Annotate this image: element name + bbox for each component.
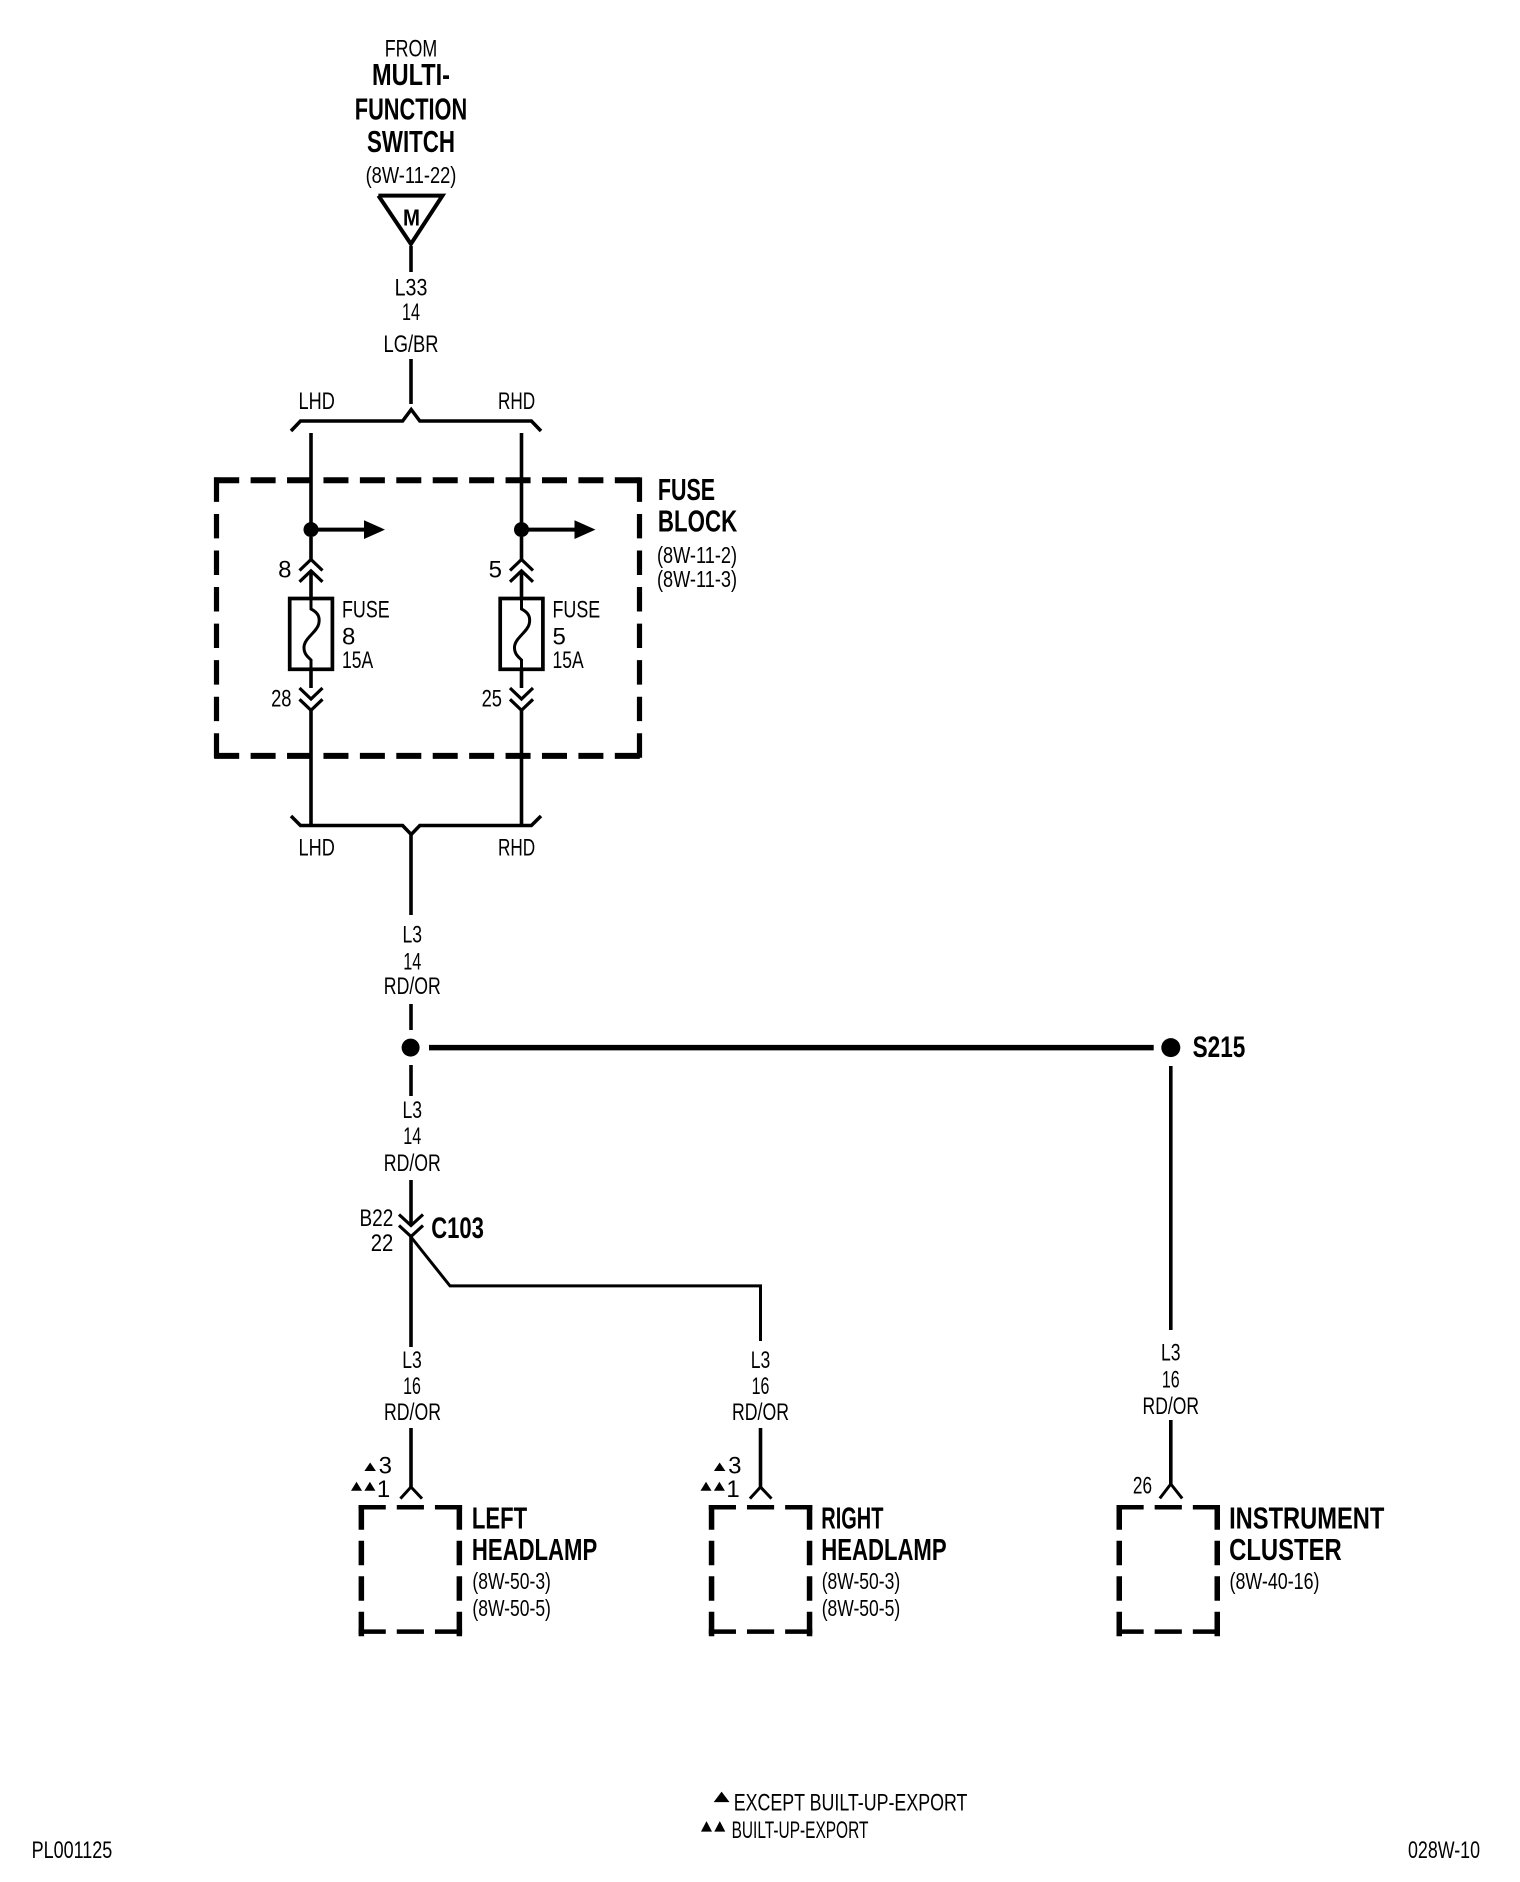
svg-text:14: 14 [403,1123,421,1150]
svg-text:L3: L3 [403,922,423,949]
svg-text:INSTRUMENT: INSTRUMENT [1229,1501,1384,1536]
svg-text:L3: L3 [403,1097,423,1124]
svg-text:(8W-50-5): (8W-50-5) [472,1595,551,1621]
svg-text:RD/OR: RD/OR [1143,1393,1200,1420]
svg-text:BLOCK: BLOCK [658,504,738,539]
svg-text:RHD: RHD [498,388,535,415]
svg-text:RD/OR: RD/OR [384,1150,441,1177]
svg-text:CLUSTER: CLUSTER [1229,1532,1342,1567]
svg-text:5: 5 [489,557,502,584]
svg-text:L33: L33 [395,274,428,301]
svg-text:L3: L3 [402,1347,422,1374]
svg-text:C103: C103 [431,1212,484,1245]
svg-text:25: 25 [482,686,502,713]
svg-text:15A: 15A [342,647,373,674]
svg-text:16: 16 [752,1373,770,1400]
svg-text:EXCEPT BUILT-UP-EXPORT: EXCEPT BUILT-UP-EXPORT [734,1790,968,1817]
svg-text:15A: 15A [553,647,584,674]
svg-text:RD/OR: RD/OR [384,1399,441,1426]
svg-text:L3: L3 [751,1347,771,1374]
svg-text:PL001125: PL001125 [32,1837,113,1864]
svg-text:14: 14 [403,948,421,975]
svg-text:MULTI-: MULTI- [372,57,450,92]
svg-text:RD/OR: RD/OR [384,973,441,1000]
svg-text:RHD: RHD [498,835,535,862]
svg-text:(8W-40-16): (8W-40-16) [1230,1568,1320,1594]
svg-text:FUSE: FUSE [658,472,715,507]
svg-text:14: 14 [402,299,420,326]
svg-text:26: 26 [1133,1473,1152,1500]
svg-text:1: 1 [377,1476,390,1503]
svg-text:16: 16 [1162,1367,1180,1394]
svg-text:028W-10: 028W-10 [1408,1837,1480,1864]
svg-text:LEFT: LEFT [472,1501,527,1536]
svg-text:L3: L3 [1161,1340,1181,1367]
svg-text:RIGHT: RIGHT [821,1501,883,1536]
svg-text:HEADLAMP: HEADLAMP [821,1532,946,1567]
svg-text:16: 16 [403,1373,421,1400]
svg-text:(8W-11-22): (8W-11-22) [366,162,457,188]
svg-text:RD/OR: RD/OR [732,1399,789,1426]
svg-text:M: M [403,204,420,230]
svg-text:FUSE: FUSE [553,596,601,623]
svg-text:SWITCH: SWITCH [367,124,455,159]
svg-text:28: 28 [271,686,291,713]
svg-text:(8W-11-3): (8W-11-3) [657,566,737,592]
svg-text:LG/BR: LG/BR [384,331,439,358]
svg-text:BUILT-UP-EXPORT: BUILT-UP-EXPORT [732,1817,869,1844]
svg-text:HEADLAMP: HEADLAMP [472,1532,597,1567]
svg-text:22: 22 [371,1230,394,1257]
svg-text:LHD: LHD [299,835,335,862]
svg-text:S215: S215 [1193,1031,1246,1064]
svg-text:(8W-50-5): (8W-50-5) [822,1595,901,1621]
svg-text:FUNCTION: FUNCTION [355,92,467,127]
svg-text:8: 8 [278,557,291,584]
svg-text:(8W-50-3): (8W-50-3) [472,1568,551,1594]
svg-text:FUSE: FUSE [342,596,390,623]
svg-text:(8W-11-2): (8W-11-2) [657,542,737,568]
svg-text:LHD: LHD [299,388,335,415]
svg-text:1: 1 [726,1476,739,1503]
svg-text:(8W-50-3): (8W-50-3) [822,1568,901,1594]
svg-text:B22: B22 [360,1205,394,1232]
